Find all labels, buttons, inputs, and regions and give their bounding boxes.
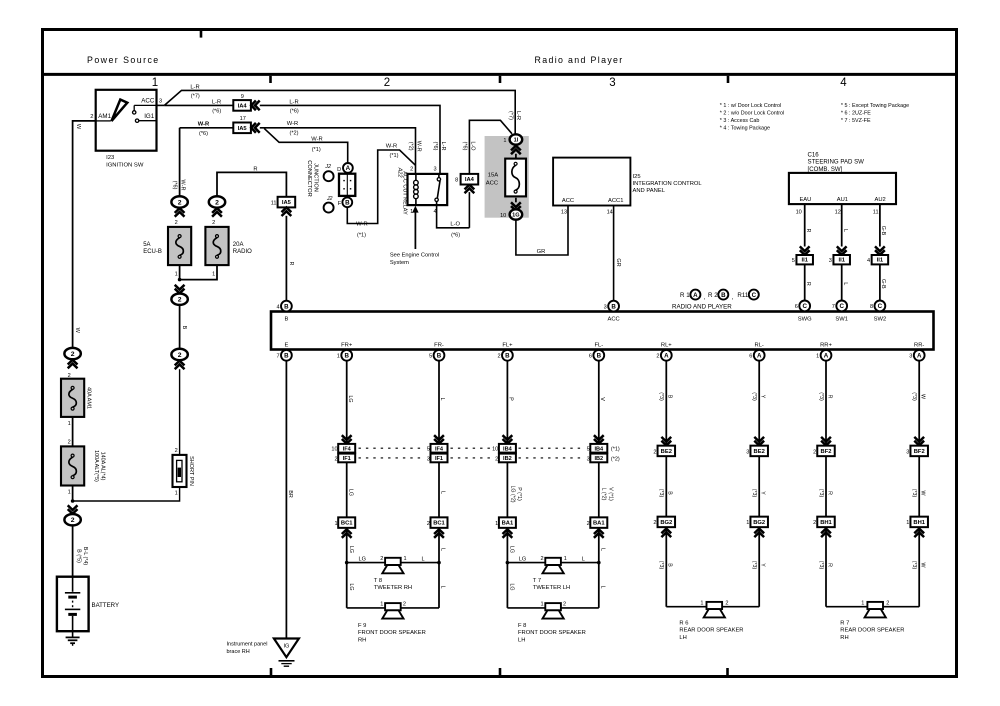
ground (battery)	[72, 631, 74, 637]
svg-text:1: 1	[564, 556, 567, 562]
ground IG instrument panel brace RH	[274, 639, 299, 658]
svg-text:BE2: BE2	[661, 449, 672, 455]
svg-text:3: 3	[746, 449, 749, 455]
relay A22 ACC CUT RELAY	[408, 174, 448, 205]
svg-text:IF4: IF4	[343, 447, 352, 453]
tweeter T7 line	[507, 562, 545, 564]
svg-text:2: 2	[178, 297, 182, 304]
rear door speaker R6	[707, 602, 723, 609]
svg-text:1: 1	[503, 138, 506, 144]
svg-text:14: 14	[607, 210, 613, 216]
svg-text:2: 2	[178, 352, 182, 359]
relay coil	[415, 174, 417, 180]
svg-text:W: W	[920, 394, 926, 399]
svg-text:AND PANEL: AND PANEL	[633, 188, 666, 194]
svg-text:II1: II1	[838, 258, 845, 264]
svg-text:EAU: EAU	[799, 197, 811, 203]
svg-text:FRONT DOOR SPEAKER: FRONT DOOR SPEAKER	[518, 630, 586, 636]
svg-text:8: 8	[455, 177, 458, 183]
connector 2 (ignition feed)	[64, 348, 80, 359]
svg-text:JUNCTION: JUNCTION	[312, 163, 318, 192]
svg-text:BATTERY: BATTERY	[92, 602, 120, 609]
svg-text:IB4: IB4	[594, 447, 604, 453]
svg-text:3: 3	[427, 456, 430, 462]
rear door speaker R7 line	[826, 606, 867, 608]
svg-text:STEERING PAD SW: STEERING PAD SW	[808, 159, 865, 166]
svg-text:(*1): (*1)	[389, 153, 398, 159]
connector BF2 pin 3	[914, 437, 924, 446]
svg-text:(*3): (*3)	[818, 561, 824, 570]
connector IF4 pin 10 / IF1 pin 2	[342, 435, 352, 444]
svg-text:(*3): (*3)	[911, 489, 917, 498]
wire Y (*3) BE2 to BG2	[758, 456, 760, 517]
connector II1 pin 5	[800, 246, 810, 255]
svg-text:LG: LG	[347, 395, 353, 402]
svg-text:A: A	[824, 353, 829, 360]
fuse 20A RADIO	[205, 227, 228, 265]
wire to short pin	[179, 369, 181, 455]
rear door speaker R7	[867, 602, 883, 609]
svg-text:L: L	[440, 586, 446, 589]
svg-text:R 1: R 1	[680, 292, 690, 299]
relay contact	[438, 174, 440, 178]
ignition switch I23	[96, 90, 157, 151]
svg-text:* 2 : w/o Door Lock Control: * 2 : w/o Door Lock Control	[720, 111, 784, 117]
svg-text:,: ,	[704, 294, 706, 301]
bus node SW2 pin 8	[875, 301, 886, 312]
svg-text:Y: Y	[760, 395, 766, 399]
svg-text:B: B	[284, 316, 288, 322]
svg-text:L-O: L-O	[450, 221, 460, 227]
svg-text:R: R	[253, 166, 257, 172]
svg-text:5: 5	[792, 258, 795, 264]
svg-text:1: 1	[68, 421, 71, 427]
svg-text:System: System	[390, 260, 409, 266]
fuse 15A ACC body	[505, 159, 526, 197]
svg-text:I23: I23	[106, 155, 115, 161]
svg-text:TWEETER LH: TWEETER LH	[533, 585, 570, 591]
svg-text:* 1 : w/ Door Lock Control: * 1 : w/ Door Lock Control	[720, 103, 781, 109]
wire R (*3) BF2 to BH1	[825, 456, 827, 517]
svg-text:L: L	[582, 556, 585, 562]
svg-text:1G: 1G	[512, 213, 519, 219]
bus node B pin 4	[281, 301, 292, 312]
svg-text:1: 1	[68, 489, 71, 495]
svg-text:IB4: IB4	[503, 447, 513, 453]
svg-text:C: C	[878, 303, 883, 310]
svg-text:B: B	[437, 353, 442, 360]
svg-text:ACC: ACC	[141, 98, 155, 105]
svg-text:LG: LG	[347, 489, 353, 496]
svg-text:REAR DOOR SPEAKER: REAR DOOR SPEAKER	[679, 628, 743, 634]
bus node ACC pin 3	[608, 301, 619, 312]
svg-text:(*3): (*3)	[658, 561, 664, 570]
svg-text:AU1: AU1	[837, 197, 848, 203]
svg-text:3: 3	[906, 449, 909, 455]
svg-text:(*3): (*3)	[911, 392, 917, 401]
wire II1 to SWG	[804, 264, 806, 300]
wire L-O (*6) vertical to 1I	[469, 120, 512, 174]
connector 2 (RADIO feed)	[209, 196, 225, 207]
wire B (*3) bus to BE2	[665, 361, 667, 446]
svg-text:LG: LG	[358, 556, 365, 562]
wire II1 to SW2	[879, 264, 881, 300]
svg-text:5A: 5A	[143, 242, 150, 248]
svg-text:FL-: FL-	[594, 343, 603, 349]
svg-text:RR-: RR-	[914, 343, 924, 349]
svg-text:2: 2	[656, 354, 659, 360]
wire W-R (*2) right	[260, 128, 416, 174]
connector IF4 pin 5 / IF1 pin 3	[434, 435, 444, 444]
svg-text:2: 2	[495, 456, 498, 462]
wire GR	[516, 206, 568, 256]
svg-text:2: 2	[563, 601, 566, 607]
svg-text:R: R	[826, 491, 832, 495]
svg-text:L: L	[842, 282, 848, 285]
svg-text:10: 10	[331, 447, 337, 453]
svg-text:15A: 15A	[488, 172, 499, 178]
svg-text:3: 3	[909, 354, 912, 360]
svg-text:R 2: R 2	[708, 292, 718, 299]
svg-text:2: 2	[380, 556, 383, 562]
junction block connector 1G	[515, 198, 517, 203]
wire FR- L (bus to IF4)	[438, 361, 440, 444]
svg-text:RADIO: RADIO	[233, 249, 252, 255]
svg-text:A: A	[664, 353, 669, 360]
svg-text:LG: LG	[348, 546, 354, 553]
svg-text:(*6): (*6)	[212, 108, 221, 114]
svg-text:B-L (*4): B-L (*4)	[82, 547, 88, 566]
radio and player bus box	[271, 312, 934, 350]
svg-text:L: L	[440, 491, 446, 494]
svg-text:IB2: IB2	[594, 456, 603, 462]
svg-text:W-R: W-R	[198, 122, 210, 128]
svg-text:BC1: BC1	[341, 521, 353, 527]
svg-text:L-O: L-O	[470, 141, 476, 151]
svg-text:1: 1	[746, 520, 749, 526]
svg-text:W-R: W-R	[416, 141, 422, 152]
svg-text:1: 1	[540, 601, 543, 607]
svg-text:2: 2	[813, 449, 816, 455]
svg-text:2: 2	[403, 601, 406, 607]
wire B (*3) BG2 to speaker	[665, 527, 667, 607]
svg-text:W: W	[920, 563, 926, 568]
svg-text:9: 9	[241, 94, 244, 100]
section tick 1-2	[269, 76, 272, 83]
svg-text:(*2): (*2)	[289, 131, 298, 137]
wire FL- V(*1) L(*2) (IB2 to BA1)	[598, 462, 600, 517]
svg-text:Y: Y	[760, 491, 766, 495]
wire 40A to 140A	[72, 417, 74, 447]
svg-text:GR: GR	[615, 258, 621, 266]
wire W (*3) BH1 to speaker	[918, 527, 920, 607]
svg-text:Power Source: Power Source	[87, 55, 160, 65]
svg-text:TWEETER RH: TWEETER RH	[374, 585, 412, 591]
svg-text:LG: LG	[348, 583, 354, 590]
svg-text:F 9: F 9	[358, 623, 366, 629]
svg-text:(*6): (*6)	[432, 142, 438, 151]
svg-text:L-R: L-R	[212, 99, 221, 105]
svg-text:17: 17	[240, 116, 246, 122]
svg-text:R 7: R 7	[840, 620, 849, 626]
front door speaker F9 line	[347, 607, 385, 609]
svg-text:1: 1	[175, 271, 178, 277]
wire L-R (*6) right	[260, 105, 440, 173]
svg-text:R: R	[288, 262, 294, 266]
svg-text:A: A	[757, 353, 762, 360]
svg-text:(*1): (*1)	[357, 233, 366, 239]
svg-text:B: B	[611, 303, 616, 310]
svg-text:1I: 1I	[514, 138, 519, 144]
svg-text:7: 7	[832, 304, 835, 310]
svg-text:BF2: BF2	[914, 449, 925, 455]
svg-text:13: 13	[561, 210, 567, 216]
wire R to bus node B	[285, 216, 287, 301]
svg-text:See Engine Control: See Engine Control	[390, 253, 439, 259]
svg-text:L-R: L-R	[440, 142, 446, 151]
svg-text:G-B: G-B	[880, 279, 886, 289]
svg-text:RL+: RL+	[661, 343, 672, 349]
ignition contact ACC	[133, 111, 136, 114]
svg-text:(*6): (*6)	[199, 131, 208, 137]
svg-text:1: 1	[906, 520, 909, 526]
svg-text:B: B	[344, 353, 349, 360]
svg-text:1: 1	[404, 556, 407, 562]
svg-text:R: R	[826, 563, 832, 567]
svg-text:BF2: BF2	[821, 449, 832, 455]
svg-text:L: L	[600, 548, 606, 551]
ignition contact AM1 line	[96, 120, 111, 122]
svg-text:B: B	[721, 292, 726, 299]
svg-text:LG (*2): LG (*2)	[509, 485, 515, 502]
svg-text:40A AM1: 40A AM1	[86, 387, 92, 409]
front door speaker F8 line	[507, 607, 545, 609]
svg-text:F: F	[338, 201, 342, 207]
svg-text:* 7 : 5VZ-FE: * 7 : 5VZ-FE	[841, 118, 871, 124]
svg-text:A: A	[346, 165, 351, 172]
svg-text:P: P	[508, 397, 514, 401]
svg-text:L-R: L-R	[289, 99, 298, 105]
svg-text:(*3): (*3)	[911, 561, 917, 570]
svg-text:(*3): (*3)	[818, 489, 824, 498]
svg-text:B: B	[284, 353, 289, 360]
svg-text:(*3): (*3)	[658, 489, 664, 498]
svg-text:1: 1	[212, 271, 215, 277]
wire to battery	[72, 486, 74, 502]
tweeter T8	[385, 558, 401, 565]
svg-text:B: B	[284, 303, 289, 310]
svg-text:L: L	[439, 398, 445, 401]
wire fuse outputs join	[180, 265, 217, 280]
svg-text:BA1: BA1	[593, 521, 605, 527]
wire FL- V (bus to IB4)	[598, 361, 600, 444]
svg-text:140A AL(*4): 140A AL(*4)	[100, 452, 106, 481]
ignition contact IG1	[135, 119, 138, 122]
wire L-R (*6) left	[164, 104, 233, 106]
battery	[57, 577, 89, 632]
svg-text:W: W	[920, 491, 926, 496]
connector BE2 pin 3	[754, 437, 764, 446]
svg-text:2: 2	[90, 114, 93, 120]
wire GR from ACC1 to radio	[613, 206, 615, 301]
svg-text:T 8: T 8	[374, 578, 382, 584]
svg-text:RH: RH	[358, 637, 366, 643]
wire W (*3) bus to BF2	[918, 361, 920, 446]
wire W	[73, 121, 96, 348]
fuse 5A ECU-B	[168, 227, 191, 265]
svg-text:ACC: ACC	[562, 198, 574, 204]
svg-text:F 8: F 8	[518, 623, 526, 629]
svg-text:R: R	[805, 229, 811, 233]
svg-text:CONNECTOR: CONNECTOR	[306, 160, 312, 197]
svg-text:FL+: FL+	[502, 343, 513, 349]
wire FR- to speakers	[438, 528, 440, 608]
wire R (*3) bus to BF2	[825, 361, 827, 446]
svg-text:IA4: IA4	[238, 103, 248, 109]
svg-text:IF4: IF4	[435, 447, 444, 453]
svg-text:BG2: BG2	[660, 520, 672, 526]
svg-text:AU2: AU2	[874, 197, 885, 203]
svg-text:R: R	[826, 395, 832, 399]
svg-text:A: A	[917, 353, 922, 360]
connector 2 (battery)	[68, 505, 78, 514]
svg-text:(*1): (*1)	[611, 447, 620, 453]
svg-text:A: A	[693, 292, 698, 299]
tweeter T7	[545, 558, 561, 565]
svg-text:BA1: BA1	[502, 521, 514, 527]
svg-text:2: 2	[587, 521, 590, 527]
integration control and panel I25	[553, 158, 630, 206]
svg-text:3: 3	[829, 258, 832, 264]
svg-text:LH: LH	[518, 637, 525, 643]
bus node SWG pin 6	[799, 301, 810, 312]
svg-text:(*2): (*2)	[407, 142, 413, 151]
svg-text:GR: GR	[537, 249, 546, 255]
svg-text:LG: LG	[509, 546, 515, 553]
svg-text:(*3): (*3)	[751, 561, 757, 570]
bottom tick 1	[270, 668, 273, 676]
wire FR- L (IF1 to BC1)	[438, 462, 440, 517]
svg-text:(*2): (*2)	[611, 456, 620, 462]
connector II1 pin 3	[837, 246, 847, 255]
svg-text:W-R: W-R	[386, 143, 397, 149]
svg-text:2: 2	[71, 517, 75, 524]
svg-text:W-R: W-R	[287, 121, 298, 127]
svg-text:11: 11	[873, 209, 879, 215]
svg-text:ECU-B: ECU-B	[143, 249, 162, 255]
svg-text:RR+: RR+	[820, 343, 832, 349]
svg-text:B: B	[597, 353, 602, 360]
fuse 40A AM1	[61, 379, 84, 417]
svg-text:10: 10	[492, 447, 498, 453]
svg-text:1: 1	[700, 600, 703, 606]
svg-text:BG2: BG2	[753, 520, 765, 526]
svg-text:(*7): (*7)	[191, 93, 200, 99]
svg-text:5: 5	[427, 447, 430, 453]
front door speaker F9	[385, 603, 401, 610]
svg-text:ACC: ACC	[486, 180, 499, 186]
svg-text:J2: J2	[326, 196, 333, 202]
svg-text:C: C	[839, 303, 844, 310]
svg-text:L: L	[422, 556, 425, 562]
svg-text:IG1: IG1	[144, 113, 155, 120]
svg-text:P (*1): P (*1)	[516, 487, 522, 501]
svg-text:BE2: BE2	[754, 449, 765, 455]
top border tick	[200, 31, 203, 38]
svg-text:5: 5	[587, 447, 590, 453]
svg-text:(*6): (*6)	[451, 233, 460, 239]
svg-text:10: 10	[500, 213, 506, 219]
svg-text:2: 2	[653, 520, 656, 526]
connector BE2 pin 2	[661, 437, 671, 446]
svg-text:E: E	[284, 343, 288, 349]
svg-text:2: 2	[725, 600, 728, 606]
svg-text:2: 2	[410, 167, 413, 173]
wire BR (E to ground)	[285, 361, 287, 639]
svg-text:Radio and Player: Radio and Player	[535, 55, 624, 65]
svg-text:W: W	[74, 328, 80, 334]
svg-text:B: B	[667, 491, 673, 495]
svg-text:2: 2	[175, 448, 178, 454]
svg-text:4: 4	[276, 304, 279, 310]
svg-text:6: 6	[795, 304, 798, 310]
svg-text:8: 8	[870, 304, 873, 310]
svg-text:1: 1	[861, 600, 864, 606]
wire FL- to speakers	[598, 528, 600, 608]
svg-text:II1: II1	[877, 258, 884, 264]
svg-text:T 7: T 7	[533, 578, 541, 584]
svg-text:R 6: R 6	[679, 620, 688, 626]
svg-text:BC1: BC1	[433, 521, 445, 527]
wire W-R (*6) vertical	[179, 128, 181, 197]
svg-text:(*6): (*6)	[290, 108, 299, 114]
svg-text:BH1: BH1	[820, 520, 832, 526]
svg-text:INTEGRATION CONTROL: INTEGRATION CONTROL	[633, 181, 703, 187]
svg-text:RADIO AND PLAYER: RADIO AND PLAYER	[672, 304, 732, 311]
svg-text:C: C	[752, 292, 757, 299]
svg-text:100A ALT(*5): 100A ALT(*5)	[93, 450, 99, 482]
svg-text:* 6 : 2UZ-FE: * 6 : 2UZ-FE	[841, 111, 871, 117]
svg-text:1: 1	[175, 491, 178, 497]
svg-text:(*3): (*3)	[658, 392, 664, 401]
svg-text:L-R: L-R	[515, 111, 521, 120]
fuse 140A ALT	[61, 446, 84, 485]
fuse 15A ACC panel	[485, 136, 529, 218]
svg-text:3: 3	[609, 77, 615, 89]
svg-text:W-R: W-R	[356, 221, 367, 227]
svg-text:(*3): (*3)	[751, 392, 757, 401]
svg-text:1: 1	[816, 354, 819, 360]
wire II1 to SW1	[841, 264, 843, 300]
bottom tick 3	[726, 668, 729, 676]
svg-text:2: 2	[71, 351, 75, 358]
svg-text:AM1: AM1	[98, 113, 111, 120]
svg-text:FR-: FR-	[434, 343, 444, 349]
tweeter T8 line	[347, 562, 385, 564]
svg-text:II1: II1	[801, 258, 808, 264]
wire short pin to battery line	[73, 487, 180, 501]
svg-text:2: 2	[178, 199, 182, 206]
wire FR+ to speakers	[346, 528, 348, 608]
svg-text:LG: LG	[509, 583, 515, 590]
svg-text:3: 3	[587, 456, 590, 462]
wire R (*3) BH1 to speaker	[825, 527, 827, 607]
svg-text:R11: R11	[737, 292, 748, 299]
wire R from 20A RADIO fuse	[217, 172, 286, 197]
svg-text:BR: BR	[287, 490, 293, 498]
svg-text:LH: LH	[679, 635, 686, 641]
section tick 2-3	[499, 76, 502, 83]
